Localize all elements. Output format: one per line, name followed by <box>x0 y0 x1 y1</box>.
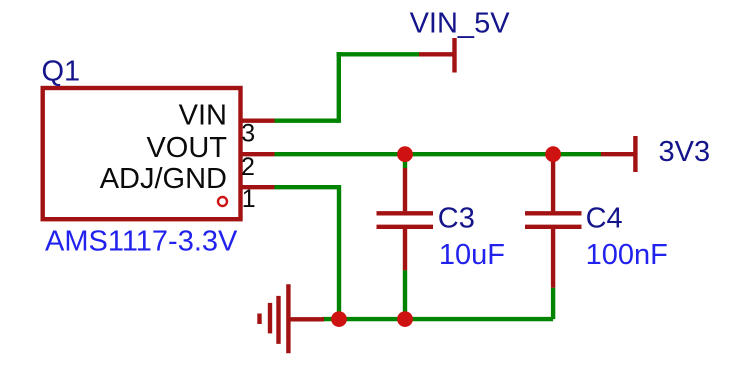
wire gnd riser down <box>337 185 341 319</box>
value 10uF <box>439 239 505 271</box>
wire pin3 to vertical riser <box>275 118 339 122</box>
pin 2 (VOUT) stub <box>241 152 275 156</box>
pin number 2 <box>241 153 255 181</box>
wire bottom ground rail <box>322 317 553 321</box>
reference C3 <box>438 202 475 234</box>
capacitor C3 bottom pin <box>403 229 407 271</box>
svg-text:100nF: 100nF <box>586 239 668 271</box>
power flag 3V3 pin <box>601 152 635 156</box>
svg-text:10uF: 10uF <box>439 239 505 271</box>
pin number 3 <box>241 119 255 147</box>
junction GND rail-C3 <box>397 311 413 327</box>
value AMS1117-3.3V <box>45 225 238 257</box>
capacitor C3 top plate <box>377 211 434 215</box>
power flag 3V3 bar <box>633 136 637 172</box>
svg-text:C3: C3 <box>438 202 475 234</box>
svg-text:VOUT: VOUT <box>146 132 227 164</box>
capacitor C3 bottom wire <box>403 270 407 319</box>
ground symbol bar 4 <box>257 314 261 325</box>
wire pin1 to gnd riser <box>275 185 340 189</box>
wire C4 bottom riser <box>551 288 555 319</box>
capacitor C3 top wire <box>403 154 407 168</box>
capacitor C4 bottom pin <box>551 229 555 288</box>
svg-text:AMS1117-3.3V: AMS1117-3.3V <box>45 225 238 257</box>
net label VIN_5V <box>410 8 511 40</box>
capacitor C4 top plate <box>525 211 582 215</box>
ground symbol bar 1 <box>286 284 290 353</box>
svg-text:1: 1 <box>242 185 256 213</box>
junction GND rail-riser <box>331 311 347 327</box>
ground symbol pin <box>288 317 324 321</box>
svg-text:C4: C4 <box>586 203 623 235</box>
svg-text:3: 3 <box>241 119 255 147</box>
wire VOUT rail <box>275 152 602 156</box>
pin 1 marker circle <box>218 197 227 206</box>
svg-text:2: 2 <box>241 153 255 181</box>
ground symbol bar 2 <box>276 296 280 344</box>
pin number 1 <box>242 185 256 213</box>
junction VOUT-C4 <box>545 146 561 162</box>
wire vertical riser to VIN_5V rail <box>337 52 341 123</box>
ground symbol bar 3 <box>268 303 272 334</box>
capacitor C3 top pin <box>403 168 407 211</box>
svg-text:ADJ/GND: ADJ/GND <box>100 163 227 195</box>
capacitor C3 bottom plate <box>377 225 434 229</box>
wire top rail to VIN_5V flag <box>337 52 419 56</box>
svg-text:VIN_5V: VIN_5V <box>410 8 511 40</box>
power flag VIN_5V bar <box>452 38 456 73</box>
pin 1 (ADJ/GND) stub <box>241 185 275 189</box>
svg-text:3V3: 3V3 <box>659 136 711 168</box>
power flag VIN_5V pin <box>419 52 455 56</box>
pin name VOUT <box>146 132 227 164</box>
svg-text:VIN: VIN <box>179 99 227 131</box>
regulator Q1 body <box>43 88 241 219</box>
reference C4 <box>586 203 623 235</box>
value 100nF <box>586 239 668 271</box>
pin name ADJ/GND <box>100 163 227 195</box>
svg-text:Q1: Q1 <box>42 56 81 88</box>
capacitor C4 bottom plate <box>525 225 582 229</box>
junction VOUT-C3 <box>397 146 413 162</box>
capacitor C4 top pin <box>551 157 555 211</box>
pin 3 (VIN) stub <box>241 118 275 122</box>
net label 3V3 <box>659 136 711 168</box>
reference Q1 <box>42 56 81 88</box>
pin name VIN <box>179 99 227 131</box>
